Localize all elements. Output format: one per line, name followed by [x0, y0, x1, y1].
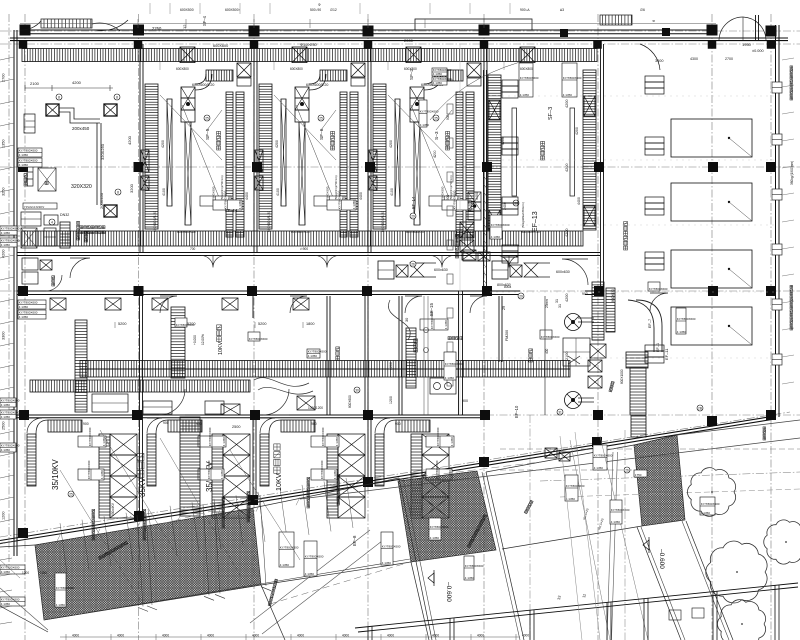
svg-text:KY/T800X600: KY/T800X600: [1, 227, 20, 231]
svg-text:∆3: ∆3: [560, 8, 564, 12]
svg-text:KY/T800X600: KY/T800X600: [1, 399, 20, 403]
svg-text:800a: 800a: [504, 285, 511, 289]
svg-text:EF–14: EF–14: [225, 208, 238, 213]
svg-text:KY/T800X600: KY/T800X600: [19, 301, 38, 305]
svg-text:800X600: 800X600: [348, 395, 352, 408]
svg-text:4 1350: 4 1350: [308, 354, 318, 358]
svg-text:∅6: ∅6: [640, 8, 645, 12]
svg-text:8: 8: [117, 190, 119, 194]
svg-text:4200: 4200: [501, 137, 505, 145]
svg-text:4400: 4400: [359, 192, 363, 200]
svg-text:4 1350: 4 1350: [19, 305, 29, 309]
svg-text:KY/T800X600: KY/T800X600: [436, 427, 440, 446]
svg-text:600x630: 600x630: [556, 270, 570, 274]
svg-text:4000: 4000: [522, 634, 529, 638]
svg-text:4100: 4100: [390, 188, 394, 196]
svg-text:–0.600: –0.600: [445, 582, 452, 602]
svg-text:4000: 4000: [252, 634, 259, 638]
svg-text:4 1350: 4 1350: [563, 93, 573, 97]
svg-text:1750: 1750: [635, 473, 642, 477]
svg-text:YJV22-0.6/1KV: YJV22-0.6/1KV: [24, 205, 45, 209]
svg-text:5200: 5200: [118, 322, 126, 326]
svg-text:10KV: 10KV: [218, 341, 224, 355]
svg-text:KY/T800X600: KY/T800X600: [594, 454, 613, 458]
svg-text:4: 4: [51, 220, 53, 224]
svg-text:900: 900: [395, 422, 401, 426]
svg-text:EF–8: EF–8: [352, 535, 357, 546]
svg-text:4100: 4100: [276, 188, 280, 196]
svg-text:4200: 4200: [565, 164, 569, 172]
svg-text:1000|1200: 1000|1200: [308, 406, 323, 410]
svg-text:KY/T800X600: KY/T800X600: [280, 546, 299, 550]
svg-text:4200: 4200: [389, 140, 393, 148]
svg-text:KY/T800X600: KY/T800X600: [305, 555, 324, 559]
svg-text:3200: 3200: [129, 183, 134, 193]
svg-text:35/10KV: 35/10KV: [51, 459, 60, 490]
svg-text:8: 8: [58, 95, 60, 99]
svg-text:1950: 1950: [742, 42, 752, 47]
svg-text:2B: 2B: [698, 406, 702, 410]
svg-text:900: 900: [582, 292, 588, 296]
svg-text:26: 26: [625, 468, 629, 472]
svg-text:320X320: 320X320: [71, 184, 92, 190]
svg-text:600X800: 600X800: [176, 67, 189, 71]
svg-text:(50kg/d8kw/350kcm): (50kg/d8kw/350kcm): [521, 202, 525, 228]
svg-text:KY/T800X600: KY/T800X600: [88, 427, 92, 446]
svg-text:KY/T800X600: KY/T800X600: [1, 444, 20, 448]
svg-text:SF–5: SF–5: [205, 128, 211, 140]
svg-text:4 1350: 4 1350: [238, 200, 242, 210]
svg-text:4 1350: 4 1350: [19, 153, 29, 157]
svg-text:KY/T800X600: KY/T800X600: [677, 317, 696, 321]
svg-text:1200: 1200: [22, 571, 29, 575]
svg-text:900: 900: [446, 194, 450, 200]
svg-text:4 1350: 4 1350: [19, 163, 29, 167]
svg-text:Φ100Φ30: Φ100Φ30: [300, 43, 317, 47]
svg-text:29: 29: [411, 214, 415, 218]
svg-text:4 1350: 4 1350: [1, 403, 11, 407]
svg-text:25: 25: [434, 116, 438, 120]
svg-text:2500: 2500: [232, 425, 240, 429]
svg-text:4 1350: 4 1350: [222, 437, 226, 447]
svg-text:4 1350: 4 1350: [566, 497, 576, 501]
svg-text:KY/T800X600: KY/T800X600: [430, 310, 434, 329]
svg-text:4 1350: 4 1350: [1, 448, 11, 452]
svg-text:KY/T800X600: KY/T800X600: [224, 190, 228, 209]
svg-text:KY/T800X600: KY/T800X600: [176, 323, 195, 327]
svg-text:33: 33: [557, 595, 562, 600]
svg-text:KY/T800X600: KY/T800X600: [420, 110, 439, 114]
svg-text:380kg/(1900mm): 380kg/(1900mm): [790, 161, 794, 185]
svg-text:500↓90: 500↓90: [310, 8, 321, 12]
svg-text:900↓∆: 900↓∆: [520, 8, 530, 12]
svg-text:900: 900: [196, 422, 202, 426]
svg-text:800X630: 800X630: [611, 289, 615, 302]
svg-text:KY/T800X600: KY/T800X600: [649, 287, 668, 291]
svg-text:31: 31: [558, 304, 562, 308]
svg-text:KY/T800X600: KY/T800X600: [611, 508, 630, 512]
svg-text:11: 11: [582, 594, 587, 599]
svg-text:800X800/5.20: 800X800/5.20: [177, 230, 196, 234]
svg-text:∅900: ∅900: [300, 247, 308, 251]
svg-text:4000: 4000: [387, 634, 394, 638]
svg-text:2100: 2100: [565, 352, 569, 360]
svg-text:∅12: ∅12: [330, 8, 337, 12]
svg-text:12.00%: 12.00%: [201, 334, 205, 345]
svg-text:EF–7: EF–7: [648, 319, 652, 328]
svg-text:S–3: S–3: [434, 131, 440, 140]
svg-text:(50kg/(3m)/700mm): (50kg/(3m)/700mm): [220, 175, 224, 200]
svg-text:4 1350: 4 1350: [1, 415, 11, 419]
svg-text:5200: 5200: [258, 322, 266, 326]
svg-text:DN32: DN32: [60, 213, 69, 217]
svg-text:4000: 4000: [117, 634, 124, 638]
svg-text:+0.000: +0.000: [193, 335, 197, 345]
svg-text:600X800/5.20: 600X800/5.20: [267, 211, 271, 232]
svg-text:800X800/5.20: 800X800/5.20: [406, 230, 425, 234]
svg-text:4300: 4300: [690, 57, 698, 61]
svg-text:4000: 4000: [72, 634, 79, 638]
svg-text:SF–6: SF–6: [319, 128, 325, 140]
svg-text:31: 31: [555, 299, 559, 303]
svg-text:–0.600: –0.600: [658, 549, 665, 569]
svg-text:KY/T800X600: KY/T800X600: [1, 239, 20, 243]
svg-text:2500: 2500: [2, 422, 6, 430]
svg-text:4 1350: 4 1350: [333, 470, 337, 480]
svg-text:4200: 4200: [565, 229, 569, 237]
svg-text:4 1350: 4 1350: [102, 437, 106, 447]
svg-text:2700: 2700: [725, 57, 733, 61]
svg-text:4 1350: 4 1350: [305, 572, 315, 576]
svg-text:KY/T800X600: KY/T800X600: [430, 525, 449, 529]
svg-text:4200: 4200: [565, 294, 569, 302]
svg-text:KY/T800X600: KY/T800X600: [1, 411, 20, 415]
svg-text:4000: 4000: [432, 634, 439, 638]
svg-text:600X800/5.20: 600X800/5.20: [381, 211, 385, 232]
svg-text:KY/T800X600: KY/T800X600: [566, 484, 585, 488]
svg-text:4 1350: 4 1350: [1, 602, 11, 606]
svg-text:4200: 4200: [275, 140, 279, 148]
svg-text:630x4KV: 630x4KV: [111, 502, 115, 516]
svg-text:4 1350: 4 1350: [611, 520, 621, 524]
svg-text:EF–13: EF–13: [532, 211, 539, 232]
svg-text:EF–10: EF–10: [514, 405, 519, 418]
svg-text:KY/T800X600: KY/T800X600: [445, 362, 464, 366]
svg-text:KY/T800X600: KY/T800X600: [382, 545, 401, 549]
svg-text:600X600: 600X600: [213, 44, 228, 48]
svg-text:4200: 4200: [161, 140, 165, 148]
svg-text:4 1350: 4 1350: [19, 315, 29, 319]
svg-text:1250: 1250: [40, 571, 47, 575]
svg-text:4 1350: 4 1350: [220, 470, 224, 480]
svg-text:4 1350: 4 1350: [450, 437, 454, 447]
svg-text:KY/T800X600: KY/T800X600: [321, 427, 325, 446]
svg-text:4 1350: 4 1350: [1, 231, 11, 235]
svg-text:25: 25: [205, 116, 209, 120]
svg-text:900: 900: [446, 114, 450, 120]
svg-text:(50kg/(3m)/700mm): (50kg/(3m)/700mm): [334, 175, 338, 200]
svg-text:KY/T800X600: KY/T800X600: [541, 335, 560, 339]
svg-text:SF–2: SF–2: [409, 69, 414, 80]
svg-text:600X600/5.20: 600X600/5.20: [306, 83, 328, 87]
svg-text:31: 31: [558, 410, 562, 414]
svg-text:4 1350: 4 1350: [1, 570, 11, 574]
svg-text:700: 700: [190, 247, 196, 251]
svg-text:KY/T800X600: KY/T800X600: [19, 149, 38, 153]
svg-text:4200: 4200: [127, 135, 132, 145]
svg-text:4 1350: 4 1350: [1, 243, 11, 247]
svg-text:23mm: 23mm: [545, 299, 549, 308]
svg-text:4200: 4200: [389, 362, 393, 370]
svg-text:4 1350: 4 1350: [335, 437, 339, 447]
svg-text:4000: 4000: [297, 634, 304, 638]
svg-text:2250: 2250: [152, 26, 162, 31]
svg-text:4 1350: 4 1350: [520, 93, 530, 97]
svg-text:KY/T800X600: KY/T800X600: [338, 190, 342, 209]
svg-text:4200: 4200: [72, 80, 82, 85]
svg-text:2000: 2000: [404, 38, 414, 43]
svg-text:KY/T800X600: KY/T800X600: [19, 159, 38, 163]
svg-text:2100: 2100: [30, 81, 40, 86]
svg-text:4 1350: 4 1350: [594, 466, 604, 470]
svg-text:4 1350: 4 1350: [445, 376, 455, 380]
svg-text:8: 8: [116, 95, 118, 99]
svg-text:800X800/5.20: 800X800/5.20: [521, 230, 540, 234]
svg-text:900: 900: [311, 422, 317, 426]
svg-text:KY/T800X600: KY/T800X600: [1, 598, 20, 602]
svg-text:4 1350: 4 1350: [420, 123, 430, 127]
svg-text:4 1350: 4 1350: [100, 470, 104, 480]
svg-text:4 1350: 4 1350: [465, 576, 475, 580]
svg-text:4000: 4000: [477, 634, 484, 638]
svg-text:4 1350: 4 1350: [433, 81, 443, 85]
svg-text:KY/T800X600: KY/T800X600: [453, 190, 457, 209]
svg-text:30: 30: [355, 388, 359, 392]
svg-text:KY/T800X600: KY/T800X600: [563, 76, 582, 80]
svg-text:30: 30: [405, 318, 409, 322]
svg-text:200X450: 200X450: [99, 192, 104, 209]
svg-text:600X800: 600X800: [520, 67, 533, 71]
svg-text:3900: 3900: [655, 59, 663, 63]
svg-text:4 1350: 4 1350: [56, 603, 66, 607]
svg-text:900: 900: [83, 422, 89, 426]
svg-text:29: 29: [502, 306, 506, 310]
svg-text:EF–14: EF–14: [411, 196, 416, 209]
svg-text:900: 900: [462, 399, 468, 403]
svg-text:4100: 4100: [162, 188, 166, 196]
svg-text:320X250: 320X250: [100, 143, 105, 160]
svg-text:KY/T800X600: KY/T800X600: [520, 76, 539, 80]
svg-text:600X800/5.20: 600X800/5.20: [153, 211, 157, 232]
svg-text:26: 26: [411, 262, 415, 266]
svg-text:4000: 4000: [162, 634, 169, 638]
svg-text:4 1350: 4 1350: [677, 330, 687, 334]
svg-text:KY/T800X600: KY/T800X600: [208, 427, 212, 446]
svg-text:SF–4: SF–4: [202, 15, 207, 26]
svg-text:25: 25: [69, 492, 73, 496]
svg-text:25: 25: [319, 116, 323, 120]
svg-text:KY/T800X600: KY/T800X600: [207, 460, 211, 479]
svg-text:600X500↑: 600X500↑: [225, 8, 241, 12]
svg-text:600X800: 600X800: [290, 67, 303, 71]
svg-text:10KV: 10KV: [274, 473, 283, 491]
svg-text:4400: 4400: [577, 197, 581, 205]
svg-text:KY/T800X600: KY/T800X600: [87, 460, 91, 479]
svg-text:200x450: 200x450: [72, 126, 90, 131]
svg-text:800X1000: 800X1000: [620, 369, 624, 384]
svg-text:KY/T800X600: KY/T800X600: [320, 460, 324, 479]
svg-text:KY/T800X600: KY/T800X600: [491, 223, 510, 227]
svg-text:29: 29: [519, 294, 523, 298]
svg-text:800X800/5.20: 800X800/5.20: [291, 230, 310, 234]
svg-text:KY/T800X600: KY/T800X600: [308, 350, 327, 354]
svg-text:KY/T800X600: KY/T800X600: [701, 502, 720, 506]
svg-text:1800: 1800: [306, 322, 314, 326]
svg-text:4 1350: 4 1350: [433, 72, 443, 76]
svg-text:4200: 4200: [433, 150, 437, 158]
svg-text:4000: 4000: [342, 634, 349, 638]
svg-text:4 1350: 4 1350: [444, 320, 448, 330]
svg-text:4200: 4200: [575, 127, 579, 135]
svg-text:KY/T800X600: KY/T800X600: [465, 564, 484, 568]
svg-text:900: 900: [163, 421, 169, 425]
svg-text:±0.000: ±0.000: [752, 49, 764, 53]
svg-text:KY/T800X600: KY/T800X600: [56, 586, 75, 590]
svg-text:4 1350: 4 1350: [352, 200, 356, 210]
svg-text:1200: 1200: [389, 396, 393, 404]
svg-text:SF–3: SF–3: [548, 107, 554, 120]
svg-text:600X500: 600X500: [180, 8, 194, 12]
svg-text:FM200: FM200: [505, 330, 509, 341]
svg-text:KY/T800X600: KY/T800X600: [19, 311, 38, 315]
svg-text:4400: 4400: [245, 192, 249, 200]
svg-text:1200: 1200: [2, 512, 6, 520]
svg-text:400: 400: [545, 348, 549, 354]
svg-text:4 1350: 4 1350: [430, 536, 440, 540]
svg-text:4000: 4000: [207, 634, 214, 638]
svg-text:3300: 3300: [2, 332, 6, 340]
svg-text:4 1350: 4 1350: [280, 563, 290, 567]
svg-text:EF–1: EF–1: [656, 343, 660, 352]
svg-text:KY/T800X600: KY/T800X600: [249, 337, 268, 341]
svg-text:600X600/5.20: 600X600/5.20: [192, 83, 214, 87]
svg-text:4200: 4200: [565, 100, 569, 108]
svg-text:4 1350: 4 1350: [491, 235, 501, 239]
svg-text:600x630: 600x630: [434, 268, 448, 272]
svg-text:4 1350: 4 1350: [382, 561, 392, 565]
